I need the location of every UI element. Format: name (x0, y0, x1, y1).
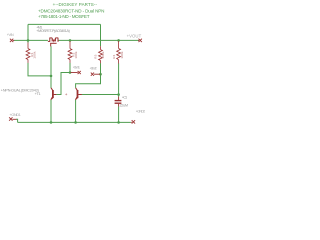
wire main output segment M1 drain to VOUT (58, 39, 139, 41)
resistor R3 (99, 46, 103, 63)
junction gnd rail T1B emitter (74, 121, 77, 124)
wire rail end down through main wire to R3 (100, 24, 102, 46)
svg-text:+MOSFET-P(AO3401A): +MOSFET-P(AO3401A) (36, 29, 70, 33)
svg-text:+VIN: +VIN (7, 33, 14, 37)
wire vertical x28 rail to R1 (27, 24, 29, 42)
wire T1A emitter to ground rail (50, 100, 52, 123)
transistor T1 origin cross (65, 93, 67, 95)
wire main input segment VIN to M1 source (14, 39, 48, 41)
svg-text:100k: 100k (120, 51, 124, 59)
resistor R2 (68, 41, 72, 63)
svg-text:+GND1: +GND1 (9, 112, 21, 117)
resistor R1 (26, 42, 30, 63)
transistor T1A (51, 88, 56, 100)
resistor R4 (117, 41, 121, 64)
junction gnd rail C1 (117, 121, 120, 124)
svg-text:+GND2: +GND2 (136, 109, 145, 113)
svg-text:100k: 100k (33, 51, 37, 59)
svg-text:+SW2: +SW2 (90, 67, 97, 71)
transistor T1B emitter arrow (75, 97, 78, 100)
port SW2 (91, 73, 100, 76)
transistor T1B (76, 88, 82, 100)
junction main wire R4 (117, 39, 120, 42)
svg-text:R3: R3 (93, 54, 97, 58)
mosfet M1 arrow (52, 40, 55, 43)
wire ground rail (18, 121, 131, 123)
junction SW1 node (69, 71, 72, 74)
capacitor C1 (115, 97, 122, 107)
wire T1B base to output cap node (82, 94, 119, 96)
transistor T1A emitter arrow (50, 97, 53, 100)
junction main wire x28 (27, 39, 30, 42)
port VOUT (138, 39, 142, 42)
svg-text:+DMC204830RCT-ND - Dual NPN: +DMC204830RCT-ND - Dual NPN (38, 9, 105, 14)
junction SW2 node (99, 73, 102, 76)
junction main wire R2 (69, 39, 72, 42)
wire R2 bottom to SW1 node (69, 63, 71, 73)
svg-text:+--DIGIKEY PARTS--: +--DIGIKEY PARTS-- (53, 2, 98, 7)
svg-text:+NPN-DUAL(DMC2043): +NPN-DUAL(DMC2043) (1, 88, 39, 92)
svg-text:+SW1: +SW1 (73, 65, 80, 69)
wire M1 gate down to T1A collector (50, 46, 52, 88)
wire C1 bottom to ground rail (118, 106, 120, 122)
svg-text:+T1: +T1 (35, 92, 41, 96)
svg-text:+C1: +C1 (122, 96, 127, 100)
mosfet M1 (48, 38, 59, 47)
wire GND1 stub (16, 119, 17, 122)
wire SW1 node to T1A base (56, 73, 70, 95)
svg-text:R4: R4 (112, 54, 116, 58)
junction gnd rail T1A emitter (50, 121, 53, 124)
wire R1 bottom to gate node (28, 63, 51, 76)
svg-text:100k: 100k (101, 51, 105, 59)
svg-text:22uM: 22uM (120, 104, 128, 108)
port VIN (10, 39, 14, 42)
wire R4 bottom to C1 top (118, 63, 120, 96)
svg-text:100k: 100k (74, 51, 78, 59)
junction gate node R1 (50, 75, 53, 78)
wire T1B emitter to ground rail (75, 100, 77, 123)
port GND1 (9, 117, 16, 120)
svg-text:+785-1801-1-ND - MOSFET: +785-1801-1-ND - MOSFET (38, 14, 90, 19)
wire R3 bottom to T1B collector (76, 63, 101, 88)
port SW1 (71, 71, 81, 74)
port GND2 (131, 120, 135, 123)
wire top rail (28, 23, 101, 25)
svg-text:+VOUT: +VOUT (127, 34, 142, 39)
junction base B cap node (117, 93, 120, 96)
